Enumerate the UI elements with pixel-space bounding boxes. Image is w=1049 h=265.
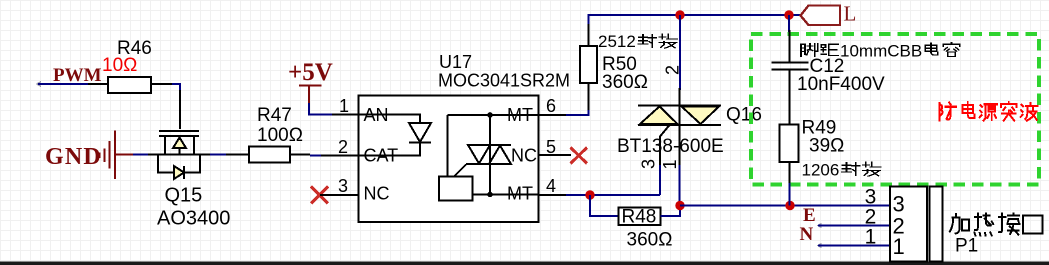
no-connect X on U17 pin 5	[571, 148, 588, 164]
svg-text:R47: R47	[257, 105, 292, 126]
P1 pin 2	[865, 206, 905, 239]
label 1206 package	[802, 161, 881, 180]
junction dot rail/C12	[784, 10, 793, 19]
svg-text:MOC3041SR2M: MOC3041SR2M	[438, 71, 570, 91]
wire Q15 drain to R47	[210, 154, 226, 156]
label 2512 package	[598, 32, 677, 51]
svg-text:10mmCBB: 10mmCBB	[840, 42, 922, 61]
svg-text:10Ω: 10Ω	[102, 55, 137, 76]
wire R47 to U17 pin 2	[310, 154, 321, 156]
wire R48 to Q16 MT1 junction	[661, 206, 681, 217]
svg-text:N: N	[800, 224, 814, 245]
svg-text:Q15: Q15	[165, 185, 203, 207]
net label E	[803, 205, 816, 226]
svg-text:2512: 2512	[598, 32, 636, 51]
svg-text:L: L	[844, 2, 857, 26]
junction dot rail/Q16	[675, 10, 684, 19]
svg-text:360Ω: 360Ω	[627, 230, 673, 251]
U17 internal triac	[448, 112, 539, 197]
wire N open-end marker	[818, 244, 822, 248]
no-connect X on U17 pin 3	[311, 187, 328, 204]
capacitor C12	[772, 56, 886, 125]
U17 internal zero-cross box	[439, 115, 473, 201]
resistor R48	[619, 207, 673, 251]
power port +5V	[288, 59, 333, 103]
resistor R47	[226, 105, 310, 163]
wire PWM to R46	[38, 83, 88, 85]
svg-text:6: 6	[546, 96, 556, 116]
designator P1	[955, 236, 978, 257]
sheet bottom border	[0, 262, 1049, 265]
label heating interface	[950, 214, 1043, 236]
svg-text:5: 5	[546, 137, 556, 157]
net label N	[800, 224, 814, 245]
svg-text:1: 1	[660, 159, 680, 169]
wire Q16 gate down	[659, 165, 661, 195]
svg-text:MT: MT	[507, 184, 533, 204]
wire GND to Q15 source	[133, 154, 148, 156]
svg-text:10nF400V: 10nF400V	[797, 74, 885, 95]
Q16 pin 2 number	[663, 65, 683, 75]
wire U17 pin4 to junction and Q16 gate	[566, 194, 660, 196]
surge protection green dashed box	[751, 34, 1039, 185]
svg-text:U17: U17	[439, 52, 472, 72]
wire R46 to Q15 gate	[172, 84, 180, 129]
wire top rail L net	[589, 15, 801, 24]
svg-text:1: 1	[865, 226, 877, 249]
transistor Q15	[148, 131, 230, 230]
U17 pin 2	[321, 137, 398, 166]
wire rail to Q16 MT2	[679, 15, 682, 105]
resistor R46	[88, 38, 172, 93]
U17 pin 3	[338, 176, 390, 204]
svg-text:MT: MT	[507, 105, 533, 125]
junction dot R49 branch	[785, 201, 794, 210]
svg-text:E: E	[803, 205, 816, 226]
svg-text:360Ω: 360Ω	[602, 72, 648, 93]
P1 pin 3	[865, 186, 905, 217]
U17 internal LED	[359, 115, 432, 156]
P1 pin 1	[865, 226, 905, 260]
svg-text:100Ω: 100Ω	[257, 125, 303, 146]
svg-text:Q16: Q16	[726, 105, 762, 126]
connector P1 body	[890, 187, 943, 262]
svg-text:3: 3	[639, 159, 659, 169]
svg-text:39Ω: 39Ω	[809, 136, 844, 157]
svg-text:3: 3	[338, 176, 348, 196]
U17 pin 1	[332, 96, 389, 125]
svg-text:P1: P1	[955, 236, 978, 257]
resistor R50	[580, 24, 648, 93]
op-coupler U17 body	[359, 52, 571, 222]
svg-text:GND: GND	[45, 144, 102, 170]
label pitch 10mm CBB capacitor	[801, 42, 960, 61]
junction dot pin4/R48	[585, 190, 594, 199]
svg-text:PWM: PWM	[53, 65, 102, 86]
svg-text:R48: R48	[622, 207, 657, 228]
svg-text:1: 1	[339, 96, 349, 116]
power port GND	[45, 131, 133, 180]
net label PWM	[53, 65, 102, 86]
wire PWM input open-end marker	[37, 82, 41, 87]
wire rail to C12	[788, 15, 791, 62]
triac Q16	[617, 105, 762, 170]
wire Q16 MT1 down	[679, 165, 681, 206]
wire R49 to pin3 net	[789, 183, 791, 206]
wire stub U17 pin 3	[320, 194, 359, 196]
wire +5V to U17 pin 1	[309, 103, 332, 115]
port L	[801, 2, 857, 26]
U17 pin 5	[511, 137, 571, 166]
svg-text:1206: 1206	[802, 161, 840, 180]
junction dot R48/Q16/P1	[675, 201, 684, 210]
wire E open-end marker	[818, 224, 822, 228]
wire junction down to R48	[590, 195, 619, 216]
resistor R49	[780, 118, 845, 184]
wire junction to P1 pin3	[680, 205, 890, 207]
svg-text:2: 2	[338, 137, 348, 157]
wire E to P1 pin2	[818, 225, 890, 227]
svg-text:NC: NC	[364, 184, 390, 204]
svg-text:+5V: +5V	[288, 59, 333, 86]
svg-text:4: 4	[546, 176, 556, 196]
svg-text:1: 1	[893, 234, 905, 259]
wire N to P1 pin1	[818, 245, 890, 247]
U17 pin 4	[507, 176, 566, 204]
U17 pin 6	[507, 96, 566, 125]
wire U17 pin 6 to R50	[566, 83, 589, 115]
label anti surge (red)	[939, 102, 1037, 120]
svg-text:BT138-600E: BT138-600E	[617, 136, 724, 157]
svg-text:AO3400: AO3400	[157, 208, 230, 230]
svg-text:NC: NC	[511, 146, 537, 166]
